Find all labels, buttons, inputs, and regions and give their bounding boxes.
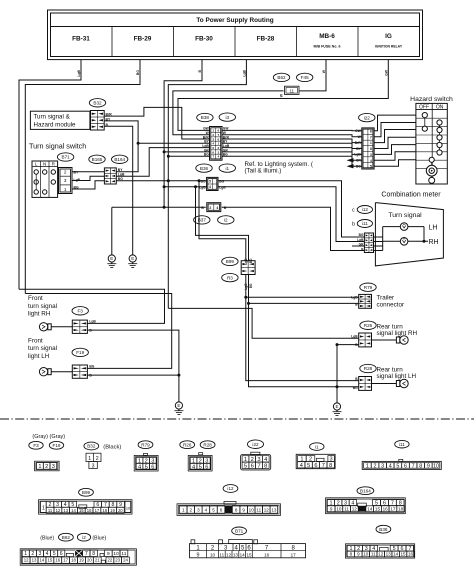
svg-text:F45: F45 bbox=[301, 75, 309, 80]
svg-text:(Tail & illumi.): (Tail & illumi.) bbox=[245, 168, 282, 175]
svg-text:17: 17 bbox=[291, 552, 297, 557]
svg-text:B: B bbox=[201, 206, 204, 210]
svg-text:5: 5 bbox=[244, 463, 247, 469]
svg-text:7: 7 bbox=[257, 463, 260, 469]
svg-text:E: E bbox=[177, 403, 180, 408]
connector oval B71 bbox=[57, 153, 73, 161]
svg-text:light RH: light RH bbox=[28, 311, 51, 318]
svg-text:3: 3 bbox=[197, 507, 200, 512]
wire BrR module to flasher row bbox=[104, 107, 209, 139]
B99 pinout grid bbox=[39, 500, 133, 514]
svg-text:Front: Front bbox=[28, 295, 43, 302]
svg-text:i2: i2 bbox=[224, 218, 228, 223]
svg-text:R28: R28 bbox=[203, 442, 212, 447]
svg-text:14: 14 bbox=[367, 506, 373, 511]
svg-text:12: 12 bbox=[378, 552, 384, 557]
svg-text:19: 19 bbox=[110, 508, 115, 513]
B71 pinout grid bbox=[191, 540, 195, 544]
svg-text:B62: B62 bbox=[277, 75, 286, 80]
svg-text:7: 7 bbox=[227, 507, 230, 512]
svg-text:8: 8 bbox=[235, 507, 238, 512]
svg-text:6: 6 bbox=[205, 464, 208, 470]
connector oval B32 bbox=[89, 99, 105, 107]
wire LgB front RH bbox=[19, 289, 165, 323]
connector R79 block bbox=[359, 294, 372, 308]
B32 pinout shape bbox=[86, 453, 101, 461]
svg-text:FB-31: FB-31 bbox=[72, 36, 90, 43]
turn signal lamp LH bbox=[400, 223, 408, 231]
svg-text:11: 11 bbox=[121, 551, 126, 557]
connector oval R79 pinout bbox=[138, 441, 153, 449]
svg-text:i1: i1 bbox=[226, 166, 230, 171]
svg-text:8: 8 bbox=[264, 463, 267, 469]
svg-text:turn signal: turn signal bbox=[28, 345, 57, 352]
svg-text:M/B FUSE No. 6: M/B FUSE No. 6 bbox=[314, 45, 341, 49]
wire BY to connector B38 row4 bbox=[138, 142, 209, 144]
ground rear bbox=[336, 399, 338, 404]
connector i22 block bbox=[362, 128, 374, 169]
connector F3 block bbox=[72, 320, 87, 333]
svg-text:connector: connector bbox=[377, 302, 405, 309]
connector oval i2 bbox=[218, 216, 234, 224]
svg-text:10: 10 bbox=[210, 552, 216, 557]
connector oval F19 pinout bbox=[49, 441, 63, 449]
svg-text:20: 20 bbox=[118, 508, 123, 513]
svg-text:11: 11 bbox=[48, 508, 53, 513]
svg-text:signal light RH: signal light RH bbox=[377, 330, 418, 337]
svg-text:B71: B71 bbox=[62, 155, 71, 160]
svg-text:OFF: OFF bbox=[419, 104, 429, 110]
svg-text:B32: B32 bbox=[93, 100, 102, 105]
lamp front turn LH bbox=[39, 368, 47, 376]
svg-text:B99: B99 bbox=[82, 490, 91, 495]
svg-text:c :: c : bbox=[352, 208, 358, 214]
svg-text:4: 4 bbox=[192, 464, 195, 470]
connector oval B71 pinout bbox=[232, 527, 247, 535]
svg-text:B99: B99 bbox=[226, 259, 235, 264]
svg-text:R26: R26 bbox=[364, 323, 373, 328]
svg-text:2: 2 bbox=[190, 507, 193, 512]
svg-text:23: 23 bbox=[115, 558, 120, 563]
wire BG tail lighting to meter bbox=[218, 181, 364, 237]
svg-text:16: 16 bbox=[87, 508, 92, 513]
svg-text:8: 8 bbox=[370, 147, 372, 151]
svg-text:E: E bbox=[110, 256, 113, 261]
svg-text:2: 2 bbox=[31, 551, 34, 557]
svg-text:6: 6 bbox=[60, 551, 63, 557]
svg-text:i12: i12 bbox=[227, 486, 234, 491]
svg-text:18: 18 bbox=[71, 558, 76, 563]
F3-F19 pinout grid bbox=[35, 461, 60, 471]
svg-text:i11: i11 bbox=[362, 221, 368, 226]
svg-text:3: 3 bbox=[370, 153, 372, 157]
svg-text:Turn signal: Turn signal bbox=[388, 212, 422, 219]
B62-i2 pinout grid bbox=[20, 549, 136, 565]
svg-text:FB-28: FB-28 bbox=[257, 36, 275, 43]
svg-text:22: 22 bbox=[108, 558, 113, 563]
svg-text:9: 9 bbox=[107, 551, 110, 557]
svg-text:17: 17 bbox=[95, 508, 100, 513]
svg-text:LgB: LgB bbox=[219, 186, 226, 190]
connector oval F3 bbox=[72, 307, 88, 315]
wire W from MB-6 through joint connector bbox=[173, 60, 326, 135]
svg-text:BG: BG bbox=[201, 179, 206, 183]
svg-text:9: 9 bbox=[357, 552, 360, 557]
svg-text:4: 4 bbox=[218, 155, 220, 159]
svg-text:Trailer: Trailer bbox=[377, 295, 395, 302]
svg-text:RH: RH bbox=[429, 239, 439, 246]
connector oval F19 bbox=[72, 348, 88, 356]
svg-text:Hazard switch: Hazard switch bbox=[410, 96, 453, 103]
svg-text:5: 5 bbox=[212, 507, 215, 512]
svg-text:3: 3 bbox=[381, 463, 384, 469]
connector oval B164 pinout bbox=[357, 487, 374, 495]
wire to rear RH bulb bbox=[372, 339, 397, 341]
svg-text:3: 3 bbox=[92, 463, 95, 469]
svg-text:LgB: LgB bbox=[242, 69, 246, 76]
wire BG front LH bbox=[25, 294, 171, 369]
svg-text:Turn signal switch: Turn signal switch bbox=[29, 142, 86, 151]
svg-text:B164: B164 bbox=[114, 157, 125, 162]
svg-text:3: 3 bbox=[52, 464, 55, 470]
svg-text:R79: R79 bbox=[364, 285, 373, 290]
turn signal lamp RH bbox=[400, 238, 408, 246]
ground rail from FB-30 bbox=[163, 206, 166, 209]
arrow to lighting system row7 bbox=[347, 164, 354, 168]
wires B38 to i22 bbox=[222, 129, 362, 131]
svg-text:11: 11 bbox=[219, 552, 224, 557]
svg-text:9: 9 bbox=[242, 507, 245, 512]
svg-text:8: 8 bbox=[329, 463, 332, 469]
svg-text:F19: F19 bbox=[76, 350, 84, 355]
svg-text:7: 7 bbox=[322, 463, 325, 469]
connector B165-B164 pins bbox=[104, 168, 116, 184]
svg-text:6: 6 bbox=[314, 463, 317, 469]
svg-text:2: 2 bbox=[374, 463, 377, 469]
connector oval B37 bbox=[194, 216, 210, 224]
svg-text:14: 14 bbox=[393, 552, 399, 557]
svg-text:4: 4 bbox=[209, 185, 211, 189]
meter internal wiring bbox=[352, 245, 364, 247]
wire to rear LH bulb bbox=[372, 383, 397, 385]
svg-text:13: 13 bbox=[63, 508, 68, 513]
svg-text:ON: ON bbox=[436, 104, 444, 110]
svg-text:Turn signal &: Turn signal & bbox=[34, 114, 71, 121]
svg-text:E: E bbox=[335, 404, 338, 409]
svg-text:13: 13 bbox=[359, 506, 365, 511]
svg-text:1: 1 bbox=[366, 463, 369, 469]
connector oval B165 bbox=[89, 155, 105, 163]
svg-text:B36: B36 bbox=[200, 166, 209, 171]
svg-text:10: 10 bbox=[363, 552, 369, 557]
connector oval i12 pinout bbox=[223, 485, 238, 493]
svg-text:Front: Front bbox=[28, 337, 43, 344]
svg-text:LgB: LgB bbox=[89, 320, 96, 324]
i12 pinout grid bbox=[224, 502, 236, 505]
svg-text:B: B bbox=[198, 69, 202, 72]
svg-text:BG: BG bbox=[118, 177, 123, 181]
connector B36-i1 block bbox=[207, 177, 218, 190]
svg-text:17: 17 bbox=[390, 506, 396, 511]
hazard illumination lamp bbox=[431, 162, 433, 180]
svg-text:(Blue): (Blue) bbox=[92, 536, 106, 542]
connector oval B38 bbox=[197, 113, 213, 121]
ground E2 bbox=[132, 251, 134, 256]
svg-text:4: 4 bbox=[205, 507, 208, 512]
connector oval i1 bbox=[219, 164, 235, 172]
svg-text:2: 2 bbox=[45, 464, 48, 470]
svg-text:9: 9 bbox=[197, 552, 200, 558]
svg-text:11: 11 bbox=[371, 552, 376, 557]
svg-text:IGNITION RELAY: IGNITION RELAY bbox=[375, 45, 403, 49]
svg-text:3: 3 bbox=[64, 178, 67, 183]
svg-text:GW: GW bbox=[355, 129, 362, 133]
wire B module to ground bbox=[104, 126, 133, 250]
svg-text:20: 20 bbox=[87, 558, 92, 563]
connector F19 block bbox=[72, 365, 87, 378]
svg-text:(Blue): (Blue) bbox=[40, 536, 54, 542]
wire LgB illumination bbox=[163, 185, 166, 188]
svg-text:4: 4 bbox=[46, 551, 49, 557]
R26-R28 pinout grid bbox=[199, 453, 203, 455]
connector oval B62 pinout bbox=[59, 533, 74, 541]
svg-text:BY: BY bbox=[118, 168, 123, 172]
wire BG B164 to B36 bbox=[116, 180, 206, 182]
svg-text:3: 3 bbox=[39, 551, 42, 557]
wire F19 bulb bbox=[51, 371, 72, 373]
connector oval i3 bbox=[219, 113, 235, 121]
svg-text:2: 2 bbox=[209, 206, 211, 210]
svg-text:LH: LH bbox=[429, 224, 438, 231]
wire LgB to rear harness bbox=[198, 179, 201, 182]
connector oval B164 bbox=[112, 155, 128, 163]
wire GW from IG ignition relay bbox=[178, 60, 388, 131]
svg-text:LgB: LgB bbox=[357, 238, 364, 242]
svg-text:i1: i1 bbox=[315, 444, 319, 449]
svg-text:12: 12 bbox=[56, 508, 61, 513]
svg-text:F3: F3 bbox=[78, 308, 84, 313]
svg-text:4: 4 bbox=[216, 206, 218, 210]
svg-text:BG: BG bbox=[356, 164, 361, 168]
svg-text:6: 6 bbox=[251, 463, 254, 469]
svg-text:BG: BG bbox=[204, 153, 209, 157]
power supply routing box bbox=[48, 10, 423, 60]
svg-text:BY: BY bbox=[356, 147, 361, 151]
svg-text:i3: i3 bbox=[226, 115, 230, 120]
svg-text:24: 24 bbox=[123, 558, 128, 563]
connector oval F45 bbox=[297, 73, 313, 81]
wire BY module to switch and B38 bbox=[104, 121, 138, 172]
R79 pinout grid bbox=[144, 453, 148, 455]
connector oval R28 bbox=[360, 364, 376, 372]
svg-text:LgB: LgB bbox=[244, 258, 248, 265]
svg-text:FB-30: FB-30 bbox=[195, 36, 213, 43]
connector oval B62 bbox=[273, 73, 289, 81]
lamp rear turn RH bbox=[396, 337, 399, 343]
hazard bottom contact bbox=[429, 177, 435, 183]
lamp front turn RH bbox=[39, 323, 47, 331]
svg-text:8: 8 bbox=[350, 552, 353, 557]
svg-text:B38: B38 bbox=[379, 527, 388, 532]
svg-text:W: W bbox=[280, 93, 284, 97]
svg-text:2: 2 bbox=[64, 170, 67, 175]
svg-text:5: 5 bbox=[199, 464, 202, 470]
wire B front LH to ground bbox=[87, 374, 178, 376]
svg-text:LgB: LgB bbox=[199, 186, 206, 190]
wire LgB from FB-28 trunk to rear lights bbox=[168, 60, 246, 309]
svg-text:6: 6 bbox=[220, 507, 223, 512]
svg-text:19: 19 bbox=[79, 558, 84, 563]
hazard lamp contact bbox=[429, 157, 434, 162]
svg-text:5: 5 bbox=[370, 165, 372, 169]
svg-text:7: 7 bbox=[370, 135, 372, 139]
connector oval R26 pinout bbox=[180, 441, 195, 449]
connector oval B32 pinout bbox=[84, 442, 99, 450]
svg-text:B38: B38 bbox=[201, 115, 210, 120]
wire LgB trunk to R26 bbox=[168, 308, 358, 338]
svg-text:Combination meter: Combination meter bbox=[381, 192, 441, 199]
svg-text:R28: R28 bbox=[364, 366, 373, 371]
turn signal switch contact grid bbox=[32, 161, 58, 197]
svg-text:(Gray) (Gray): (Gray) (Gray) bbox=[32, 434, 65, 440]
svg-text:6: 6 bbox=[151, 464, 154, 470]
turn signal and hazard module box bbox=[30, 111, 90, 129]
connector B37-i2 block bbox=[206, 202, 222, 213]
svg-text:N: N bbox=[43, 162, 46, 167]
wire B ground rail bbox=[112, 207, 365, 250]
svg-text:BG: BG bbox=[353, 386, 358, 390]
svg-text:15: 15 bbox=[79, 508, 84, 513]
svg-text:BG: BG bbox=[249, 283, 253, 288]
svg-text:B165: B165 bbox=[92, 157, 103, 162]
connector oval R79 bbox=[360, 283, 376, 291]
svg-text:16: 16 bbox=[264, 552, 270, 557]
wire LgB switch to B164 bbox=[72, 176, 104, 180]
svg-text:12: 12 bbox=[264, 507, 270, 512]
svg-text:1: 1 bbox=[24, 551, 27, 557]
svg-text:B: B bbox=[224, 206, 227, 210]
connector oval B36 bbox=[196, 164, 212, 172]
svg-text:BrR: BrR bbox=[355, 141, 362, 145]
svg-text:15: 15 bbox=[246, 552, 252, 557]
svg-text:1: 1 bbox=[370, 141, 372, 145]
wire ground rail to E bbox=[111, 207, 113, 250]
wires i22 to hazard switch bbox=[374, 115, 416, 131]
svg-text:GR: GR bbox=[356, 159, 362, 163]
svg-text:1: 1 bbox=[38, 464, 41, 470]
svg-text:B62: B62 bbox=[62, 535, 71, 540]
svg-text:R3: R3 bbox=[227, 275, 233, 280]
svg-text:10: 10 bbox=[113, 551, 119, 557]
svg-text:LgB: LgB bbox=[77, 69, 81, 76]
hazard switch table bbox=[416, 103, 447, 184]
svg-text:9: 9 bbox=[427, 463, 430, 469]
connector R26 block bbox=[359, 333, 372, 347]
i11 pinout grid bbox=[399, 459, 403, 461]
svg-text:turn signal: turn signal bbox=[28, 303, 57, 310]
svg-text:16: 16 bbox=[55, 558, 60, 563]
svg-text:5: 5 bbox=[396, 463, 399, 469]
connector oval R28 pinout bbox=[200, 441, 215, 449]
wire BG row7 from trunk bbox=[167, 155, 170, 158]
svg-text:13: 13 bbox=[271, 507, 277, 512]
svg-text:Hazard module: Hazard module bbox=[34, 121, 77, 128]
svg-text:13: 13 bbox=[386, 552, 392, 557]
svg-text:14: 14 bbox=[40, 558, 45, 563]
connector oval i22 pinout bbox=[248, 440, 264, 449]
svg-text:7: 7 bbox=[412, 463, 415, 469]
svg-text:11: 11 bbox=[344, 506, 349, 511]
svg-text:15: 15 bbox=[47, 558, 52, 563]
svg-text:2: 2 bbox=[96, 456, 99, 462]
wire BY switch to B164 bbox=[72, 171, 104, 173]
svg-text:14: 14 bbox=[71, 508, 76, 513]
svg-text:E: E bbox=[131, 256, 134, 261]
svg-text:12: 12 bbox=[24, 558, 29, 563]
wire LgB rear turn RH feed bbox=[246, 275, 359, 298]
svg-text:15: 15 bbox=[401, 552, 407, 557]
svg-text:16: 16 bbox=[383, 506, 389, 511]
lamp rear turn LH bbox=[396, 381, 399, 387]
svg-text:4: 4 bbox=[138, 464, 141, 470]
svg-text:5: 5 bbox=[209, 179, 211, 183]
svg-text:10: 10 bbox=[336, 506, 342, 511]
svg-text:B32: B32 bbox=[87, 444, 96, 449]
svg-text:18: 18 bbox=[102, 508, 107, 513]
svg-text:6: 6 bbox=[404, 463, 407, 469]
svg-text:12: 12 bbox=[352, 506, 358, 511]
svg-text:BG: BG bbox=[249, 258, 253, 263]
connector B99-R3 block bbox=[241, 261, 255, 275]
svg-text:1: 1 bbox=[88, 456, 91, 462]
wire BG switch to B164 bbox=[72, 181, 104, 189]
module connector B32 pins bbox=[91, 111, 105, 131]
svg-text:To Power Supply Routing: To Power Supply Routing bbox=[196, 17, 273, 24]
ground front bbox=[178, 398, 180, 403]
svg-text:1: 1 bbox=[64, 187, 67, 192]
svg-text:MB-6: MB-6 bbox=[319, 33, 335, 40]
connector oval i22 bbox=[359, 113, 375, 121]
svg-text:IG: IG bbox=[385, 33, 392, 40]
svg-text:W: W bbox=[322, 69, 326, 73]
separator dash-dot line bbox=[0, 418, 474, 420]
hazard contacts ON bbox=[439, 123, 441, 153]
i1 pinout grid bbox=[296, 454, 335, 468]
svg-text:16: 16 bbox=[408, 552, 414, 557]
ground E1 bbox=[111, 251, 113, 256]
B38 pinout grid bbox=[345, 544, 414, 558]
svg-text:LgB: LgB bbox=[354, 153, 361, 157]
wire LgB from FB-31 to left trunk bbox=[19, 60, 81, 290]
svg-text:R79: R79 bbox=[141, 442, 150, 447]
svg-text:i22: i22 bbox=[364, 115, 371, 120]
svg-text:10: 10 bbox=[249, 507, 255, 512]
svg-text:R: R bbox=[52, 162, 56, 167]
meter connector block bbox=[364, 233, 373, 253]
svg-text:5: 5 bbox=[53, 551, 56, 557]
wire BG rear feed bbox=[249, 275, 359, 304]
svg-text:BG: BG bbox=[136, 70, 140, 75]
svg-text:light LH: light LH bbox=[28, 353, 50, 360]
connector oval i11 pinout bbox=[395, 440, 409, 448]
combination meter body bbox=[375, 203, 443, 266]
connector B38-i3 block bbox=[210, 127, 223, 161]
svg-text:5: 5 bbox=[307, 463, 310, 469]
svg-text:11: 11 bbox=[290, 88, 295, 93]
svg-text:BY: BY bbox=[74, 171, 79, 175]
svg-text:i22: i22 bbox=[252, 442, 259, 447]
svg-text:L: L bbox=[35, 162, 38, 167]
